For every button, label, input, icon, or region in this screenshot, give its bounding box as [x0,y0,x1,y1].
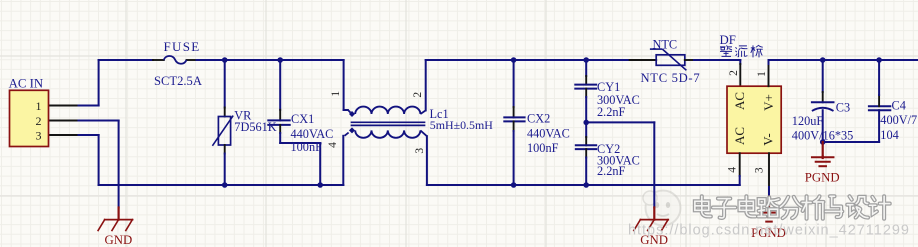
svg-text:4: 4 [327,142,339,148]
svg-text:NTC: NTC [653,37,678,51]
svg-text:2: 2 [36,114,42,128]
svg-text:400V/7: 400V/7 [880,113,917,127]
svg-text:2.2nF: 2.2nF [597,105,626,119]
svg-text:2: 2 [728,70,740,76]
svg-text:440VAC: 440VAC [527,127,570,141]
svg-text:3: 3 [414,148,426,154]
svg-text:104: 104 [880,128,898,142]
svg-text:CY1: CY1 [597,80,620,94]
svg-text:V+: V+ [761,94,776,111]
svg-text:V-: V- [761,133,776,146]
svg-text:4: 4 [727,167,739,173]
svg-text:AC: AC [732,92,747,110]
svg-text:100nF: 100nF [291,140,323,154]
svg-text:https://blog.csdn.net/weixin_4: https://blog.csdn.net/weixin_42711299 [628,223,909,239]
svg-text:CX2: CX2 [527,112,550,126]
svg-text:100nF: 100nF [527,141,559,155]
svg-text:3: 3 [754,167,766,173]
svg-text:1: 1 [756,71,768,77]
svg-text:NTC 5D-7: NTC 5D-7 [641,71,701,85]
svg-text:AC IN: AC IN [9,77,43,91]
svg-text:400V/16*35: 400V/16*35 [792,129,854,143]
svg-text:SCT2.5A: SCT2.5A [154,74,202,88]
svg-text:5mH±0.5mH: 5mH±0.5mH [430,118,493,132]
svg-text:1: 1 [330,91,342,97]
svg-text:120uF: 120uF [792,114,824,128]
svg-text:C4: C4 [892,99,906,113]
svg-text:GND: GND [105,233,133,247]
svg-text:7D561K: 7D561K [234,120,276,134]
svg-text:DF: DF [720,33,736,47]
svg-text:2.2nF: 2.2nF [597,164,626,178]
svg-text:3: 3 [36,128,42,142]
svg-text:CX1: CX1 [291,112,314,126]
svg-text:FUSE: FUSE [164,39,201,54]
svg-text:1: 1 [36,99,42,113]
svg-text:PGND: PGND [805,170,840,184]
svg-text:C3: C3 [836,101,850,115]
svg-text:AC: AC [732,127,747,145]
svg-text:2: 2 [412,92,424,98]
